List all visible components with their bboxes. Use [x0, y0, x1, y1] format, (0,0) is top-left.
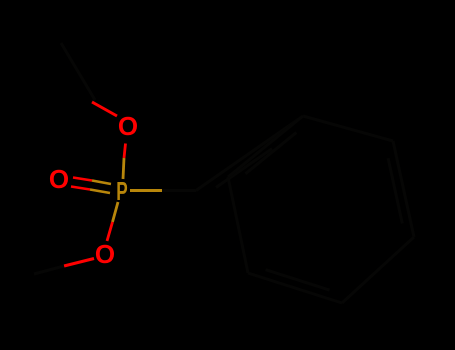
wire: O-CH3 top bond dark half	[92, 100, 95, 102]
wire: ring inner double bond line on F-A	[245, 132, 296, 173]
wire: C1=C2 vinylic double bond main line (carbon)	[196, 116, 303, 191]
wire: ring inner double bond line on B-C	[388, 158, 402, 223]
wire: bottom O-CH3 red half	[64, 259, 94, 267]
wire: ring edge C-D	[342, 237, 414, 303]
wire: ring edge E-F	[228, 177, 248, 273]
wire: P=O double bond lower line gold half	[90, 190, 110, 194]
svg-text:P: P	[116, 176, 127, 206]
wire: P-C bond gold half	[130, 189, 162, 192]
wire: O-P bond red half (vertical)	[124, 144, 126, 159]
wire: O-CH3 top bond red half	[92, 102, 117, 116]
wire: C1=C2 double bond companion line	[216, 149, 272, 188]
wire: ring edge F-A	[228, 116, 303, 177]
wire: P=O double bond lower line red half	[71, 187, 90, 190]
wire: ring edge A-B	[303, 116, 393, 141]
wire: O-P bond gold half	[123, 158, 124, 179]
wire: P-C bond dark half (carbon)	[162, 189, 196, 192]
wire: P-O bottom bond gold half	[113, 202, 119, 222]
svg-text:O: O	[49, 164, 69, 194]
wire: ring edge D-E	[248, 273, 342, 303]
wire: P=O double bond upper line gold half	[92, 181, 111, 185]
svg-text:O: O	[118, 111, 138, 141]
wire: P-O bottom bond red half	[107, 222, 113, 241]
wire: ring inner double bond line on D-E	[266, 270, 330, 290]
wire: ring edge B-C	[393, 141, 414, 237]
wire: ethyl C-C segment top-left (carbon colored, dark)	[61, 43, 95, 100]
wire: bottom O-CH3 dark half (carbon)	[34, 266, 64, 274]
wire: P=O double bond upper line red half	[73, 178, 92, 181]
svg-text:O: O	[95, 239, 115, 269]
